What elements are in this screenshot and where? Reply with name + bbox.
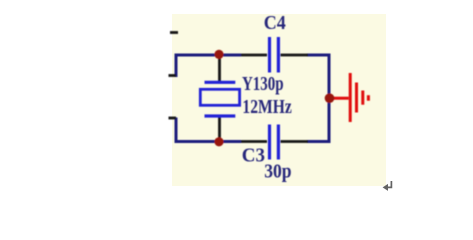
svg-text:12MHz: 12MHz	[242, 95, 291, 117]
svg-text:30p: 30p	[264, 161, 291, 183]
svg-text:C4: C4	[264, 12, 286, 34]
svg-text:Y130p: Y130p	[242, 72, 284, 95]
svg-text:C3: C3	[242, 145, 265, 167]
